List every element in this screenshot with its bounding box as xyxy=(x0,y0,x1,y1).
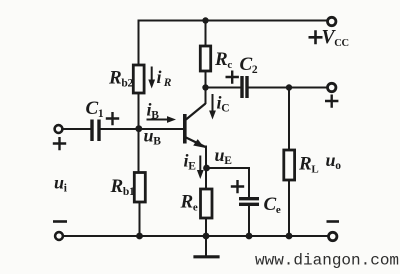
output terminal top xyxy=(328,83,336,91)
svg-text:VCC: VCC xyxy=(322,27,349,49)
svg-text:iB: iB xyxy=(147,100,160,122)
wire Rc bottom to collector xyxy=(205,71,207,103)
svg-text:ui: ui xyxy=(54,173,68,195)
wire output node down to RL xyxy=(288,88,290,151)
wire Rc top (rail to resistor) xyxy=(205,21,207,47)
ground xyxy=(205,236,207,256)
svg-text:Rb1: Rb1 xyxy=(110,176,135,198)
svg-text:i R: i R xyxy=(157,67,172,89)
node output junction xyxy=(286,84,292,90)
node collector xyxy=(202,84,208,90)
node dot top rail at Rc xyxy=(202,17,208,23)
wire input terminal to C1 xyxy=(63,128,91,130)
arrow iC xyxy=(212,94,214,112)
wire C2 to output node xyxy=(249,87,328,89)
label +VCC xyxy=(309,30,323,44)
svg-text:iE: iE xyxy=(184,151,197,173)
wire C1 to base xyxy=(101,128,183,130)
VCC terminal xyxy=(328,17,336,25)
wire Rb2 bottom to base node to Rb1 top xyxy=(138,93,140,173)
plus sign at C1 xyxy=(106,112,119,125)
capacitor C2 xyxy=(242,76,247,98)
wire emitter node to Ce xyxy=(207,168,250,197)
wire bottom rail xyxy=(63,235,329,237)
node rail Rb1 xyxy=(136,233,143,240)
plus sign under input terminal xyxy=(53,137,66,150)
capacitor Ce xyxy=(239,199,259,205)
svg-text:C2: C2 xyxy=(240,54,258,76)
resistor Rb2 xyxy=(133,65,144,93)
wire top rail xyxy=(139,20,328,22)
input terminal bottom xyxy=(55,232,63,240)
svg-text:Ce: Ce xyxy=(264,194,281,216)
transistor emitter arrowhead xyxy=(193,139,204,148)
wire RL bottom to ground rail xyxy=(288,180,290,236)
wire Rb1 bottom to ground rail xyxy=(139,202,141,236)
wire collector node to C2 xyxy=(206,87,241,89)
svg-text:iC: iC xyxy=(217,93,230,115)
arrow iB xyxy=(147,119,169,121)
resistor RL xyxy=(284,150,295,180)
node rail Ce xyxy=(246,233,253,240)
node rail RL xyxy=(286,233,293,240)
arrow iE xyxy=(199,156,201,172)
wire left vertical from top rail to Rb2 xyxy=(138,21,140,66)
plus sign at Ce xyxy=(231,180,244,193)
node rail Re/ground xyxy=(203,233,210,240)
svg-text:Rc: Rc xyxy=(214,49,232,71)
wire emitter vertical to Re xyxy=(205,147,207,190)
node uE (emitter) xyxy=(203,165,210,172)
resistor Rc xyxy=(200,46,210,71)
arrow iR xyxy=(151,67,153,82)
svg-text:Re: Re xyxy=(180,192,198,214)
capacitor C1 xyxy=(92,120,99,142)
plus sign at C2 xyxy=(226,71,239,84)
minus sign above output bottom terminal xyxy=(327,220,340,223)
svg-text:www.diangon.com: www.diangon.com xyxy=(255,252,399,270)
svg-text:C1: C1 xyxy=(86,98,104,120)
resistor Rb1 xyxy=(134,173,145,203)
output terminal bottom xyxy=(329,232,337,240)
input terminal top xyxy=(55,125,63,133)
wire Ce bottom to ground rail xyxy=(248,207,250,237)
minus sign above input bottom terminal xyxy=(53,220,67,223)
wire Re bottom to ground rail xyxy=(205,218,207,236)
svg-text:Rb2: Rb2 xyxy=(108,68,133,90)
node uB (base) xyxy=(135,125,142,132)
resistor Re xyxy=(201,189,213,218)
svg-text:RL: RL xyxy=(298,154,318,176)
svg-text:uo: uo xyxy=(326,150,342,172)
svg-text:uE: uE xyxy=(215,145,233,167)
plus sign under output terminal xyxy=(325,95,338,108)
transistor Q (NPN) xyxy=(183,104,206,148)
